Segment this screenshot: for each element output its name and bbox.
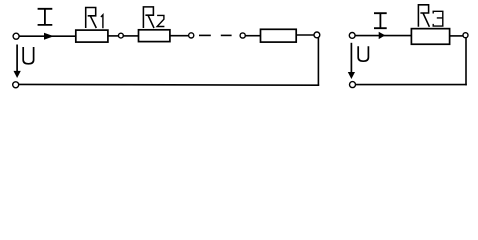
label Re: [418, 5, 442, 27]
resistor R2: [139, 30, 170, 42]
wire: R1 to junction node: [108, 35, 119, 37]
current arrow I (right circuit): [379, 32, 386, 39]
wire: left circuit top rail, terminal to R1: [19, 35, 76, 37]
wire: last resistor to right terminal: [296, 34, 314, 36]
node: tap before last resistor: [240, 33, 245, 38]
current arrow I (left circuit): [44, 33, 54, 40]
label U (right circuit voltage): [358, 46, 368, 61]
voltage arrow U (right circuit): [348, 43, 355, 79]
wire: dashed continuation segment 1: [199, 34, 211, 36]
wire: R2 to tap node: [170, 35, 189, 37]
voltage arrow U (left circuit): [14, 45, 21, 79]
wire: dashed continuation segment 2: [221, 34, 232, 36]
wire: left circuit right side down: [317, 37, 319, 85]
wire: Re to right terminal: [450, 35, 463, 37]
terminal node: right circuit bottom-left: [350, 82, 356, 88]
terminal node: right circuit top-right: [463, 33, 468, 38]
wire: junction to R2: [123, 35, 138, 37]
label U (left circuit voltage): [23, 47, 33, 64]
wire: left circuit bottom rail: [19, 83, 319, 86]
node: tap after R2: [189, 33, 194, 38]
node: junction between R1 and R2: [119, 33, 124, 38]
label I (left circuit current): [38, 9, 53, 25]
resistor Rn (last, unlabeled): [261, 29, 297, 42]
terminal node: left circuit bottom-left: [13, 82, 19, 88]
label R2: [143, 7, 164, 28]
resistor R1: [76, 30, 108, 42]
resistor Re: [411, 29, 449, 45]
wire: right circuit right side down: [465, 37, 467, 85]
label R1: [86, 8, 103, 29]
wire: right circuit bottom rail: [356, 84, 467, 86]
wire: tap node to last resistor: [245, 35, 260, 37]
label I (right circuit current): [374, 13, 387, 28]
wire: right circuit top rail, terminal to Re: [355, 35, 411, 37]
terminal node: left circuit top-left: [13, 33, 19, 39]
terminal node: right circuit top-left: [349, 33, 355, 39]
terminal node: left circuit top-right: [314, 32, 320, 38]
